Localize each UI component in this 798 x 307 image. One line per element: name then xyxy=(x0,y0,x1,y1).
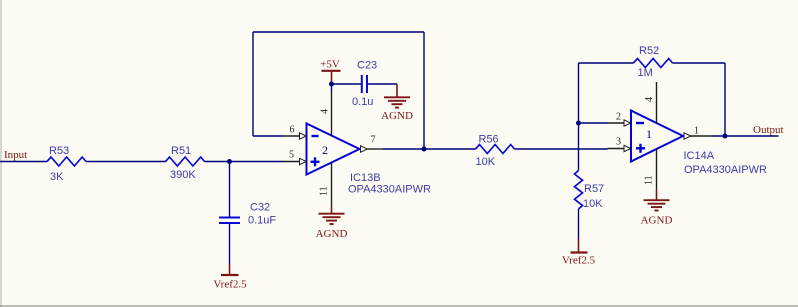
feedback wire U2: down to output xyxy=(724,63,726,136)
pin 4 of IC13B xyxy=(320,92,332,136)
pin 11 of IC14A xyxy=(644,149,657,190)
net label Input xyxy=(4,149,27,161)
pin 5 of IC13B xyxy=(283,150,306,165)
svg-text:3K: 3K xyxy=(50,171,64,183)
svg-text:AGND: AGND xyxy=(641,215,673,227)
resistor R56 xyxy=(476,134,515,169)
svg-text:4: 4 xyxy=(320,109,331,114)
wire +5V to pin4 xyxy=(331,84,333,92)
wire R56 to pin3 of IC14A xyxy=(515,148,608,150)
svg-text:5: 5 xyxy=(289,150,294,161)
svg-text:Input: Input xyxy=(4,149,27,161)
svg-text:390K: 390K xyxy=(170,169,196,181)
wire to pin6 xyxy=(253,135,283,137)
power port +5V xyxy=(320,59,340,85)
wire C23 to AGND xyxy=(368,83,397,85)
feedback wire U1: down to pin6 xyxy=(252,32,254,136)
wire pin7 to R56 xyxy=(383,148,476,150)
svg-text:Vref2.5: Vref2.5 xyxy=(213,279,247,291)
svg-text:2: 2 xyxy=(616,112,621,123)
svg-text:OPA4330AIPWR: OPA4330AIPWR xyxy=(684,164,767,176)
sheet border left xyxy=(0,0,2,307)
wire +5V node to C23 xyxy=(332,83,362,85)
wire R51 to pin5 of U1 xyxy=(205,161,284,163)
node junction +5V/C23 xyxy=(329,82,334,87)
node junction at C32 tap xyxy=(227,159,232,164)
pin 1 of IC14A (output) xyxy=(684,126,712,140)
svg-text:R53: R53 xyxy=(49,145,69,157)
wire R53 to R51 xyxy=(86,161,166,163)
op-amp U2 IC14A xyxy=(631,111,767,177)
svg-text:1M: 1M xyxy=(638,67,653,79)
pin 7 of IC13B (output) xyxy=(361,135,384,153)
svg-text:C23: C23 xyxy=(357,60,377,72)
node junction feedback/output IC14A xyxy=(723,134,728,139)
ground AGND (top, at C23) xyxy=(381,84,413,122)
wire R57 to Vref2.5 xyxy=(578,209,580,239)
resistor R51 xyxy=(166,145,205,181)
op-amp U1 IC13B xyxy=(307,124,431,196)
wire junction down to C32 xyxy=(229,162,231,217)
pin 3 of IC14A xyxy=(608,137,631,152)
svg-text:11: 11 xyxy=(319,186,330,196)
svg-text:1: 1 xyxy=(694,126,699,137)
resistor R52 xyxy=(634,45,673,79)
node junction feedback/output IC13B xyxy=(422,147,427,152)
svg-text:C32: C32 xyxy=(250,202,270,214)
pin 6 of IC13B xyxy=(283,125,306,140)
svg-text:IC14A: IC14A xyxy=(684,150,715,162)
svg-text:1: 1 xyxy=(646,127,652,141)
wire node to pin2 xyxy=(579,122,608,124)
wire R52 to right vertical xyxy=(673,62,726,64)
sheet border bottom xyxy=(0,305,798,307)
svg-text:11: 11 xyxy=(644,175,655,185)
resistor R57 xyxy=(575,171,605,211)
svg-text:2: 2 xyxy=(322,143,328,157)
power port Vref2.5 (right) xyxy=(562,239,596,267)
svg-text:AGND: AGND xyxy=(316,228,348,240)
svg-text:7: 7 xyxy=(371,135,376,146)
feedback wire U1: up from output xyxy=(423,32,425,149)
svg-text:AGND: AGND xyxy=(381,110,413,122)
ground AGND (under IC13B pin 11) xyxy=(316,207,348,240)
capacitor C23 xyxy=(352,60,377,109)
svg-text:3: 3 xyxy=(616,137,621,148)
svg-text:10K: 10K xyxy=(476,156,496,168)
ground AGND (under IC14A pin 11) xyxy=(641,190,673,227)
wire input to R53 xyxy=(0,161,47,163)
svg-text:IC13B: IC13B xyxy=(350,172,381,184)
svg-text:+5V: +5V xyxy=(320,59,340,71)
svg-text:0.1u: 0.1u xyxy=(352,96,373,108)
svg-text:R52: R52 xyxy=(639,45,659,57)
feedback wire U2: vertical at x=578.5 xyxy=(578,63,580,171)
feedback wire U2: top horizontal to R52 xyxy=(579,62,634,64)
net label Output xyxy=(753,124,784,136)
svg-text:10K: 10K xyxy=(583,198,603,210)
svg-text:Vref2.5: Vref2.5 xyxy=(562,255,596,267)
pin 4 of IC14A xyxy=(644,82,657,123)
node junction pin2/feedback xyxy=(576,121,581,126)
pin 2 of IC14A xyxy=(608,112,631,127)
svg-text:R56: R56 xyxy=(479,134,499,146)
svg-text:6: 6 xyxy=(290,125,295,136)
feedback wire U1: top horizontal xyxy=(253,31,424,33)
power port Vref2.5 (left) xyxy=(213,264,247,291)
resistor R53 xyxy=(47,145,86,183)
wire C32 to Vref2.5 xyxy=(229,224,231,264)
svg-text:0.1uF: 0.1uF xyxy=(248,215,276,227)
svg-text:R51: R51 xyxy=(171,145,191,157)
wire pin1 to Output xyxy=(712,135,779,137)
svg-text:Output: Output xyxy=(753,124,784,136)
svg-text:OPA4330AIPWR: OPA4330AIPWR xyxy=(348,184,431,196)
svg-text:4: 4 xyxy=(644,97,655,102)
pin 11 of IC13B xyxy=(319,163,332,208)
capacitor C32 xyxy=(219,202,276,227)
svg-text:R57: R57 xyxy=(584,183,604,195)
